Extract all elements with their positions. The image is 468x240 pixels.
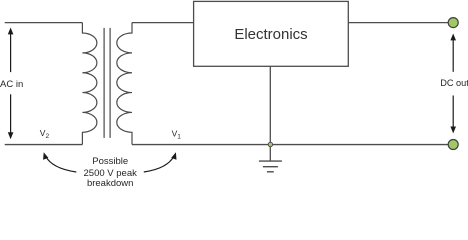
svg-text:DC out: DC out (440, 78, 468, 88)
wire secondary to electronics box (132, 22, 194, 24)
annotation arrow left (to V2) (43, 152, 76, 172)
svg-text:AC in: AC in (0, 79, 23, 90)
wire bottom-left (AC source to primary) (5, 144, 83, 146)
wire bottom (secondary to DC out) (132, 144, 448, 146)
wire electronics to ground (269, 66, 271, 161)
annotation arrow right (to V1) (144, 152, 177, 172)
DC out arrow down (450, 96, 456, 134)
annotation text: Possible 2500 V peak breakdown (84, 156, 138, 189)
wire top-left (AC source to primary) (5, 22, 83, 24)
terminal DC out - (bottom green) (448, 140, 458, 150)
terminal DC out + (top green) (448, 18, 458, 28)
ground symbol (259, 161, 282, 172)
transformer secondary winding (117, 23, 132, 145)
svg-text:Possible: Possible (92, 156, 128, 167)
wire electronics to top DC terminal (348, 22, 448, 24)
transformer core (104, 28, 110, 138)
electronics box U1 (194, 1, 349, 66)
DC out arrow up (450, 34, 456, 72)
svg-text:Electronics: Electronics (234, 26, 307, 43)
AC in arrow (double-headed) (8, 28, 14, 140)
svg-text:breakdown: breakdown (87, 178, 133, 189)
transformer primary winding (82, 23, 97, 145)
junction dot (ground node) (268, 142, 272, 146)
